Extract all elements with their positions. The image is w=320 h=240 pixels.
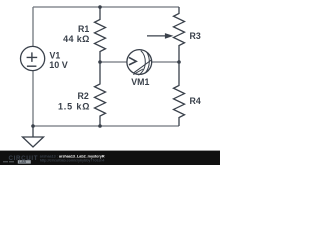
wire [32,71,34,126]
svg-text:R3: R3 [190,31,201,41]
wire [33,6,179,8]
node junction top R1 [98,5,102,9]
svg-text:1.5 kΩ: 1.5 kΩ [58,101,90,111]
watermark bar [0,151,220,165]
potentiometer R3 [147,7,185,62]
R2 label [78,91,89,101]
resistor R1 [95,7,106,62]
VM1 label [131,77,149,87]
ground [23,126,44,147]
voltmeter VM1 [127,50,152,76]
svg-text:44 kΩ: 44 kΩ [63,34,90,44]
R1 label [78,24,89,34]
V1 value label [49,60,68,70]
svg-text:VM1: VM1 [131,77,149,87]
R1 value label [63,34,90,44]
R2 value label [58,101,90,111]
svg-text:R2: R2 [78,91,89,101]
node junction ground [31,124,35,128]
node junction R3 R4 VM1 [177,60,181,64]
svg-text:http://circuitlab.com/c/y6ybby: http://circuitlab.com/c/y6ybby77c6zn4 [40,158,105,162]
resistor R2 [95,62,106,126]
wire [100,61,127,63]
voltage source V1 [20,46,44,70]
R3 label [190,31,201,41]
node junction R2 bottom [98,124,102,128]
node junction R1 R2 VM1 [98,60,102,64]
wire [152,61,179,63]
wire [32,7,34,46]
wire [33,125,179,127]
svg-text:R1: R1 [78,24,89,34]
svg-text:10 V: 10 V [49,60,68,70]
svg-text:LAB: LAB [19,160,27,164]
svg-text:R4: R4 [190,96,201,106]
resistor R4 [174,62,185,126]
V1 label [50,51,61,61]
R4 label [190,96,201,106]
